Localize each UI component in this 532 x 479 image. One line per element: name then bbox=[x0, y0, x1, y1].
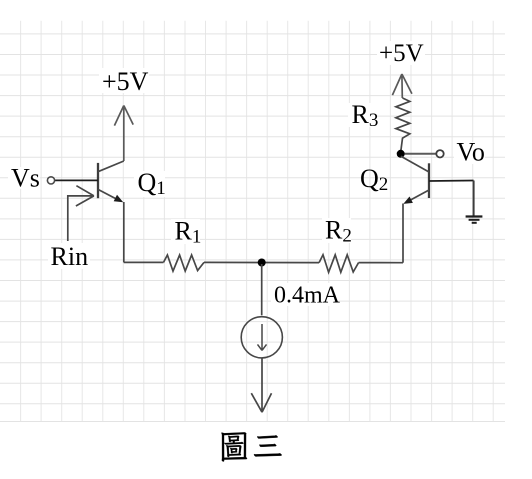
Q1 emitter arrowhead bbox=[114, 195, 124, 202]
wire: R1-R2 horizontal rail bbox=[124, 261, 403, 263]
node B dot (R3 / Q2 collector / Vo) bbox=[397, 150, 405, 158]
wire Q2 base to ground bbox=[473, 181, 475, 217]
svg-text:0.4mA: 0.4mA bbox=[274, 283, 341, 309]
Q2 collector lead from node B bbox=[401, 156, 429, 172]
Q1 collector lead bbox=[98, 161, 124, 172]
Rin input-resistance arrow bbox=[68, 186, 94, 241]
Vo terminal circle bbox=[436, 150, 443, 157]
ground bbox=[466, 217, 483, 223]
ground bar 3 bbox=[472, 222, 477, 224]
ground bar 2 bbox=[469, 219, 480, 221]
svg-text:Vs: Vs bbox=[11, 164, 40, 193]
resistor R2 bbox=[319, 255, 359, 272]
+5V arrow left bbox=[114, 106, 133, 162]
current source circle bbox=[241, 317, 282, 358]
Q1 base bar bbox=[97, 163, 99, 198]
grid horizontal lines bbox=[0, 34, 505, 422]
current source inner arrow bbox=[258, 324, 267, 350]
Q2 base bar bbox=[428, 163, 430, 198]
svg-text:+5V: +5V bbox=[379, 40, 424, 67]
wire Q2 emitter down to R2 bbox=[402, 204, 404, 263]
svg-text:Rin: Rin bbox=[51, 242, 89, 271]
Q2 emitter arrowhead bbox=[403, 197, 413, 204]
Q2 emitter lead bbox=[408, 190, 430, 202]
svg-text:+5V: +5V bbox=[102, 67, 149, 96]
node A junction dot bbox=[258, 259, 266, 267]
ground bar 1 bbox=[466, 215, 483, 217]
wire: node A to current source bbox=[261, 264, 263, 315]
grid vertical lines bbox=[21, 21, 494, 422]
Vs terminal circle bbox=[47, 177, 54, 184]
current source output arrow bbox=[251, 358, 271, 412]
wire Vs to Q1 base bbox=[55, 179, 99, 181]
wire Q2 base to ground drop bbox=[429, 180, 474, 183]
caption 圖 (Figure) bbox=[221, 432, 247, 461]
label background patches bbox=[8, 41, 485, 306]
wire node B to Vo terminal bbox=[405, 153, 437, 155]
transistor Q2 bbox=[401, 156, 474, 263]
svg-text:Vo: Vo bbox=[457, 138, 485, 167]
caption 三 (Three) bbox=[254, 435, 282, 456]
transistor Q1 bbox=[55, 161, 124, 262]
current source I1 0.4mA bbox=[241, 317, 282, 358]
resistor R1 bbox=[164, 255, 205, 271]
resistor R3 bbox=[396, 98, 410, 151]
wire Q1 emitter down to R1 bbox=[123, 202, 125, 262]
Q1 emitter lead bbox=[98, 189, 120, 200]
+5V arrow right bbox=[392, 74, 412, 98]
